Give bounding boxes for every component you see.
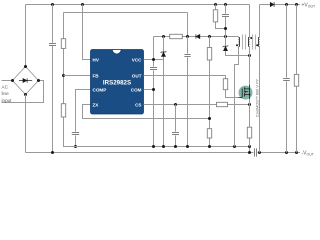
svg-text:input: input — [2, 98, 13, 103]
resistor R4 ZX upper — [207, 48, 211, 61]
svg-text:OUT: OUT — [132, 73, 142, 78]
wire clamp network — [216, 5, 250, 56]
capacitor C3 VCC — [150, 68, 157, 70]
resistor R3 aux series — [170, 34, 183, 38]
transformer T1 primary winding — [248, 37, 249, 46]
diode D2 output rectifier — [270, 2, 274, 7]
capacitor C2 COMP — [72, 133, 79, 135]
wire COM ground net — [64, 147, 250, 153]
resistor R9 shunt — [247, 127, 251, 138]
resistor R6 clamp — [213, 10, 217, 22]
resistor R2 divider lower — [61, 104, 65, 117]
capacitor C4 aux filter — [184, 55, 190, 57]
wire aux branch — [154, 36, 239, 38]
capacitor C8 output — [283, 79, 290, 81]
svg-text:HV: HV — [93, 57, 100, 62]
wire secondary top — [259, 5, 261, 38]
wire bottom DC- rail — [26, 152, 301, 154]
svg-text:-VOUT: -VOUT — [302, 150, 315, 156]
wire FB divider top rail — [64, 13, 188, 39]
IC U1 IRS2982S body — [91, 50, 144, 115]
node VCC junction — [152, 58, 155, 61]
resistor R1 divider upper — [61, 39, 65, 49]
wire FB pin — [64, 75, 91, 77]
node COM junction — [152, 88, 155, 91]
transformer T1 aux winding — [239, 37, 240, 46]
wire gate stub — [238, 96, 242, 98]
capacitor C7 Y-cap series — [255, 148, 257, 156]
svg-text:line: line — [2, 91, 10, 96]
wire ZX pin loop — [83, 105, 210, 119]
wire CS cap branch — [175, 105, 177, 147]
text AC line input — [2, 84, 13, 103]
svg-text:COMP: COMP — [93, 87, 107, 92]
zener Z2 clamp — [223, 45, 229, 50]
node top rail junctions — [51, 3, 227, 6]
wire VCC pin — [144, 59, 164, 61]
svg-text:+VOUT: +VOUT — [302, 2, 317, 8]
wire bridge DC- to bottom rail — [25, 95, 27, 153]
wire AC line terminal L — [2, 80, 13, 82]
node COM net junctions — [152, 145, 251, 148]
svg-text:COM: COM — [131, 87, 142, 92]
wire aux winding bottom return — [235, 47, 239, 147]
wire aux cap branch — [187, 37, 189, 147]
wire top DC+ rail — [26, 5, 250, 67]
wire AC line terminal N — [2, 81, 44, 103]
wire output cap branch — [286, 5, 288, 153]
wire output load branch — [296, 5, 298, 153]
node COMP cap to COM net — [74, 145, 77, 148]
wire VCC cap and COM column — [153, 37, 155, 147]
node bottom rail junctions — [51, 151, 298, 154]
bridge rectifier BR1 — [13, 67, 39, 95]
wire COM pin — [144, 89, 154, 91]
wire ZX divider column — [209, 37, 211, 147]
wire primary to drain — [249, 47, 251, 87]
svg-text:ZX: ZX — [93, 102, 100, 107]
zener Z1 VCC clamp — [161, 37, 167, 147]
node output rail junctions — [285, 3, 298, 6]
pin labels U1 left — [93, 57, 107, 107]
wire secondary bottom — [259, 47, 261, 153]
resistor R7 gate — [223, 79, 227, 90]
wire COMP pin branch — [76, 90, 91, 147]
svg-text:AC: AC — [2, 84, 9, 89]
node clamp junction — [224, 27, 227, 30]
transformer T1 secondary winding — [258, 37, 259, 46]
svg-text:IRS2982S: IRS2982S — [103, 79, 131, 86]
node transformer phase dots — [236, 37, 258, 46]
transistor Q1 MOSFET symbol — [242, 85, 250, 99]
node ZX tap — [208, 117, 211, 120]
transformer T1 core — [243, 35, 256, 50]
svg-text:CS: CS — [135, 102, 141, 107]
capacitor C5 clamp — [222, 15, 229, 17]
wire HV pin from top rail — [83, 5, 91, 60]
diode D1 aux rectifier — [196, 34, 200, 39]
node FB tap — [62, 74, 65, 77]
node bridge corners — [11, 65, 40, 96]
resistor R10 load — [294, 74, 298, 86]
transistor Q1 CoolMOS circle — [239, 86, 253, 100]
svg-text:CoolMOS™ 600 V P7: CoolMOS™ 600 V P7 — [254, 79, 259, 117]
svg-text:FB: FB — [93, 73, 100, 78]
resistor R8 CS filter — [217, 102, 228, 106]
wire MOSFET source column — [249, 99, 251, 147]
node drain junction — [248, 54, 251, 57]
node aux branch junctions — [162, 35, 227, 38]
wire FB divider vertical — [64, 48, 76, 146]
node CS junctions — [174, 103, 251, 106]
svg-text:VCC: VCC — [132, 57, 142, 62]
wire output rail — [260, 4, 301, 6]
pin labels U1 right — [131, 57, 142, 107]
resistor R5 ZX lower — [207, 129, 211, 138]
capacitor C1 bus — [49, 44, 56, 46]
diode inside bridge BR1 — [19, 78, 32, 83]
wire bus capacitor branch — [52, 5, 54, 153]
capacitor C6 CS filter — [172, 133, 179, 135]
wire OUT gate drive — [144, 76, 239, 98]
wire CS pin — [144, 104, 250, 106]
